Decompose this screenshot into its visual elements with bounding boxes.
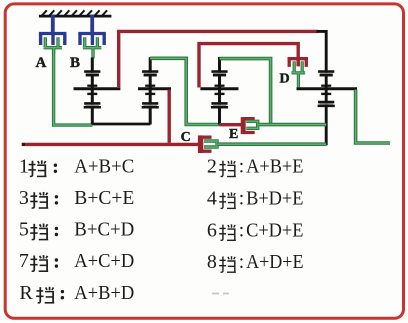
svg-text:R: R	[19, 282, 33, 304]
svg-text:8: 8	[207, 251, 217, 273]
planetary P4 shaft drop	[317, 31, 327, 145]
svg-text:B+D+E: B+D+E	[246, 188, 303, 209]
svg-text:4: 4	[207, 187, 217, 209]
svg-text:2: 2	[207, 156, 217, 178]
svg-text:A+D+E: A+D+E	[246, 252, 303, 273]
svg-text:C: C	[181, 130, 191, 145]
svg-text:A+B+C: A+B+C	[74, 155, 134, 177]
svg-text:3: 3	[19, 187, 29, 209]
gear table row 1 right	[207, 156, 304, 178]
clutch D outer comb (red)	[288, 59, 309, 67]
planetary P3 lower T-bar	[215, 93, 225, 95]
gear table row 1 left	[19, 155, 134, 177]
brake B inner plate (green fork)	[83, 37, 101, 58]
svg-text:7: 7	[19, 250, 29, 272]
wire red P3 sun to clutch E	[220, 123, 243, 126]
wire red output line	[22, 143, 26, 146]
planetary P2 shaft	[149, 57, 152, 124]
svg-text:A+C+D: A+C+D	[74, 250, 134, 272]
svg-text:B+C+E: B+C+E	[74, 187, 134, 209]
wire green E to P4 sun	[258, 123, 327, 127]
wire green P2 top to P3 sun bottom	[150, 58, 219, 124]
svg-text:D: D	[280, 71, 290, 86]
gear table row 4 left	[19, 250, 134, 272]
planetary P3 shaft	[218, 57, 221, 125]
planetary P1 lower mesh (double bar)	[84, 103, 101, 107]
clutch C outer (red)	[198, 135, 203, 153]
planetary P1 upper T-bar	[87, 85, 97, 87]
svg-text:5: 5	[19, 219, 29, 241]
ground (hatched fixed frame)	[39, 10, 112, 16]
planetary P4 lower mesh (double bar)	[318, 102, 335, 106]
faint print artifact	[212, 293, 229, 295]
gear table row 3 left	[19, 219, 134, 241]
planetary P2 lower T-bar	[145, 93, 155, 95]
planetary P4 carrier bar	[297, 87, 358, 90]
svg-text:B: B	[70, 55, 80, 71]
brake A (blue outer comb)	[39, 15, 67, 46]
svg-text::: :	[239, 252, 244, 273]
svg-text:A: A	[36, 55, 47, 71]
wire A output (green)	[54, 49, 93, 125]
brake B (blue outer comb)	[78, 15, 106, 46]
planetary P4 upper T-bar	[321, 85, 331, 87]
planetary P3 upper mesh (double bar)	[211, 72, 227, 76]
planetary P1 lower T-bar	[87, 93, 97, 95]
gear table row 3 right	[207, 219, 304, 241]
svg-text:B+C+D: B+C+D	[74, 219, 134, 241]
planetary P3 carrier bar	[200, 87, 238, 90]
planetary P2 upper mesh (double bar)	[142, 72, 158, 76]
planetary P4 upper mesh (double bar)	[318, 72, 334, 76]
gear table row 5 left	[19, 282, 134, 304]
planetary P3 lower mesh (double bar)	[211, 103, 228, 107]
gear table row 2 left	[19, 187, 134, 209]
svg-text:E: E	[229, 127, 238, 142]
wire green P3 top to node E-right	[220, 59, 271, 125]
clutch D inner fork (green)	[291, 61, 305, 87]
planetary P1 carrier bar	[74, 87, 121, 90]
planetary P4 lower T-bar	[321, 93, 331, 95]
svg-text:A+B+D: A+B+D	[74, 282, 134, 304]
planetary P3 upper T-bar	[215, 85, 225, 87]
gear table row 2 right	[207, 187, 304, 209]
planetary P2 lower mesh (double bar)	[142, 103, 159, 107]
svg-text::: :	[239, 188, 244, 209]
wire green P4 carrier output	[356, 90, 390, 143]
wire red P3 carrier to clutch D	[199, 44, 298, 88]
svg-text:C+D+E: C+D+E	[246, 220, 303, 241]
clutch C inner (green)	[204, 141, 217, 147]
clutch E inner (green)	[246, 121, 257, 128]
planetary P2 upper T-bar	[145, 85, 155, 87]
planetary P2 carrier bar	[138, 87, 171, 90]
wire red input (P1 carrier to top rail)	[119, 31, 318, 87]
wire red P2 carrier drop	[167, 90, 170, 143]
clutch E outer (red)	[241, 117, 246, 134]
planetary P1 shaft	[91, 58, 94, 125]
gear table row 4 right	[207, 251, 304, 273]
planetary P1 upper mesh (double bar)	[84, 72, 100, 76]
svg-text:1: 1	[19, 155, 29, 177]
svg-text:A+B+E: A+B+E	[246, 157, 303, 178]
wire green C output to P4 sun bottom	[217, 142, 326, 146]
svg-text::: :	[239, 220, 244, 241]
lower rail P1-P2	[92, 123, 150, 126]
svg-text::: :	[239, 157, 244, 178]
svg-text:6: 6	[207, 219, 217, 241]
brake A inner plate (green fork)	[44, 37, 62, 54]
